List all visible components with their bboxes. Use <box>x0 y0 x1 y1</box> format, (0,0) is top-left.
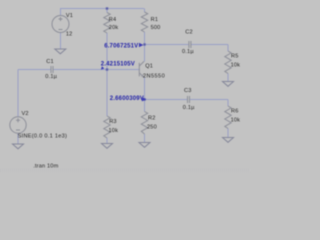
svg-text:R3: R3 <box>109 119 117 125</box>
svg-text:R6: R6 <box>231 109 239 115</box>
svg-text:R4: R4 <box>109 17 117 23</box>
svg-text:20k: 20k <box>109 25 119 31</box>
svg-text:10k: 10k <box>231 63 241 69</box>
svg-text:R2: R2 <box>148 115 156 121</box>
svg-text:10k: 10k <box>109 128 119 134</box>
svg-text:2.4215105V: 2.4215105V <box>101 61 135 67</box>
svg-text:2.6600309V: 2.6600309V <box>110 96 144 102</box>
svg-text:0.1µ: 0.1µ <box>45 74 57 80</box>
svg-text:12: 12 <box>66 32 73 38</box>
svg-text:2N5550: 2N5550 <box>143 73 165 79</box>
svg-text:C2: C2 <box>185 30 193 36</box>
svg-text:R5: R5 <box>231 54 239 60</box>
svg-text:500: 500 <box>151 25 161 31</box>
svg-text:C3: C3 <box>184 88 192 94</box>
svg-text:R1: R1 <box>151 17 159 23</box>
svg-text:6.7067251V: 6.7067251V <box>104 43 138 49</box>
svg-text:.tran 10m: .tran 10m <box>33 164 58 170</box>
svg-text:SINE(0.0 0.1 1e3): SINE(0.0 0.1 1e3) <box>18 133 68 139</box>
svg-text:250: 250 <box>147 124 157 130</box>
svg-text:10k: 10k <box>231 118 241 124</box>
svg-text:V1: V1 <box>66 13 73 19</box>
svg-text:Q1: Q1 <box>145 63 153 69</box>
svg-text:0.1µ: 0.1µ <box>182 49 194 55</box>
svg-text:C1: C1 <box>46 59 54 65</box>
svg-text:V2: V2 <box>22 111 29 117</box>
svg-text:0.1µ: 0.1µ <box>183 105 195 111</box>
